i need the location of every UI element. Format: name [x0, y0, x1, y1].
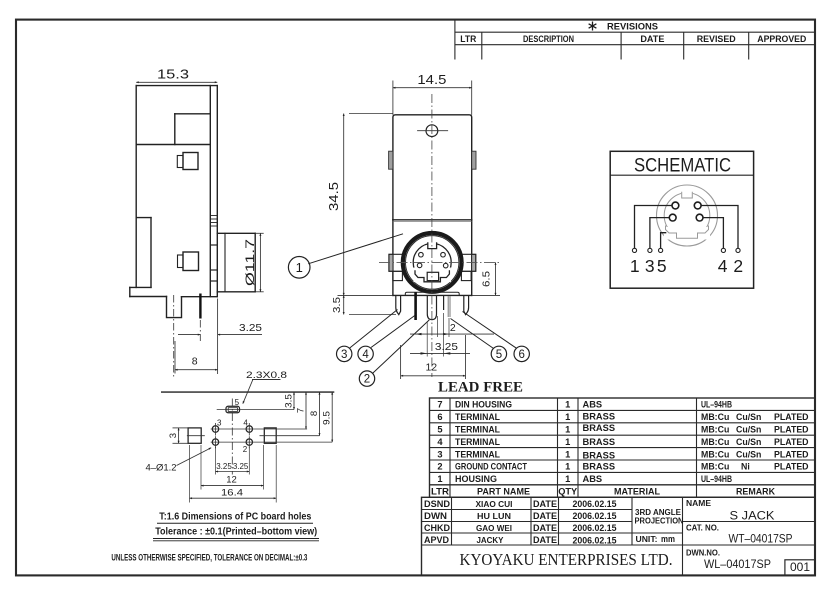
svg-text:6: 6: [437, 412, 442, 422]
svg-text:BRASS: BRASS: [583, 411, 616, 421]
svg-text:12: 12: [226, 475, 237, 486]
svg-text:Cu/Sn: Cu/Sn: [736, 412, 761, 422]
svg-text:PART NAME: PART NAME: [477, 487, 531, 498]
svg-text:MATERIAL: MATERIAL: [614, 487, 660, 498]
svg-text:NAME: NAME: [686, 499, 712, 508]
svg-text:1: 1: [630, 256, 640, 276]
svg-text:BRASS: BRASS: [583, 437, 616, 447]
svg-text:DATE: DATE: [533, 499, 557, 509]
svg-text:JACKY: JACKY: [477, 535, 504, 545]
svg-text:3.25: 3.25: [239, 322, 262, 334]
svg-text:1: 1: [565, 425, 570, 435]
svg-text:3: 3: [168, 433, 179, 438]
svg-text:14.5: 14.5: [417, 73, 446, 87]
svg-text:3: 3: [645, 256, 655, 276]
svg-text:GROUND CONTACT: GROUND CONTACT: [455, 462, 527, 472]
svg-text:XIAO CUI: XIAO CUI: [476, 499, 513, 509]
svg-text:5: 5: [437, 425, 442, 435]
svg-text:CHKD: CHKD: [424, 523, 450, 533]
svg-text:mm: mm: [661, 534, 675, 545]
svg-text:TERMINAL: TERMINAL: [455, 437, 500, 447]
svg-text:7: 7: [296, 408, 307, 413]
svg-text:2: 2: [437, 462, 442, 472]
svg-text:16.4: 16.4: [221, 488, 243, 499]
svg-text:MB:Cu: MB:Cu: [701, 462, 729, 472]
svg-text:6: 6: [518, 349, 524, 361]
svg-text:2.3X0.8: 2.3X0.8: [246, 370, 287, 381]
svg-text:APPROVED: APPROVED: [757, 33, 806, 44]
svg-text:REMARK: REMARK: [736, 487, 775, 498]
svg-text:TERMINAL: TERMINAL: [455, 425, 500, 435]
svg-text:TERMINAL: TERMINAL: [455, 412, 500, 422]
svg-text:3.25: 3.25: [216, 462, 232, 471]
svg-text:2: 2: [450, 322, 456, 334]
svg-text:MB:Cu: MB:Cu: [701, 437, 729, 447]
svg-text:ABS: ABS: [583, 474, 603, 484]
svg-text:8: 8: [192, 356, 198, 368]
svg-text:APVD: APVD: [424, 535, 449, 545]
svg-text:1: 1: [565, 462, 570, 472]
svg-text:UL–94HB: UL–94HB: [701, 474, 732, 484]
svg-text:BRASS: BRASS: [583, 462, 616, 472]
svg-text:MB:Cu: MB:Cu: [701, 412, 729, 422]
svg-text:PLATED: PLATED: [774, 462, 809, 472]
svg-text:2006.02.15: 2006.02.15: [573, 536, 617, 546]
svg-text:1: 1: [565, 474, 570, 484]
svg-text:34.5: 34.5: [327, 182, 341, 211]
svg-text:BRASS: BRASS: [583, 450, 616, 460]
svg-text:UNLESS OTHERWISE SPECIFIED, TO: UNLESS OTHERWISE SPECIFIED, TOLERANCE ON…: [111, 553, 307, 563]
svg-text:3: 3: [341, 349, 347, 361]
svg-text:4: 4: [243, 418, 248, 427]
svg-text:ABS: ABS: [583, 400, 603, 410]
svg-text:3.5: 3.5: [331, 297, 343, 313]
svg-text:DATE: DATE: [640, 33, 664, 44]
svg-text:9.5: 9.5: [322, 411, 333, 425]
svg-text:DWN: DWN: [424, 511, 447, 521]
svg-text:6.5: 6.5: [480, 271, 492, 287]
svg-text:PLATED: PLATED: [774, 425, 809, 435]
svg-text:HU LUN: HU LUN: [477, 511, 511, 521]
svg-text:3: 3: [217, 419, 222, 428]
svg-text:REVISED: REVISED: [697, 33, 736, 44]
svg-text:1: 1: [565, 400, 570, 410]
svg-text:WT–04017SP: WT–04017SP: [729, 531, 793, 545]
svg-text:LTR: LTR: [431, 487, 449, 498]
svg-text:UNIT:: UNIT:: [636, 535, 658, 544]
svg-text:SCHEMATIC: SCHEMATIC: [634, 155, 731, 176]
svg-text:2006.02.15: 2006.02.15: [573, 499, 617, 509]
svg-text:DATE: DATE: [533, 535, 557, 545]
svg-text:1: 1: [565, 412, 570, 422]
svg-text:PLATED: PLATED: [774, 437, 809, 447]
svg-text:Tolerance : ±0.1(Printed–botto: Tolerance : ±0.1(Printed–bottom view): [155, 527, 317, 538]
svg-text:DESCRIPTION: DESCRIPTION: [523, 33, 574, 44]
svg-text:MB:Cu: MB:Cu: [701, 449, 729, 459]
svg-text:GAO WEI: GAO WEI: [476, 523, 512, 533]
svg-text:1: 1: [296, 260, 303, 275]
svg-text:7: 7: [437, 400, 442, 410]
svg-text:DATE: DATE: [533, 523, 557, 533]
svg-text:Ø11.7: Ø11.7: [243, 239, 257, 286]
svg-text:5: 5: [496, 349, 502, 361]
svg-text:12: 12: [425, 362, 437, 374]
svg-text:PLATED: PLATED: [774, 412, 809, 422]
svg-text:T:1.6 Dimensions of PC boa: T:1.6 Dimensions of PC board holes: [159, 512, 311, 523]
svg-text:DWN.NO.: DWN.NO.: [686, 548, 720, 557]
svg-text:UL–94HB: UL–94HB: [701, 400, 732, 410]
svg-text:PLATED: PLATED: [774, 449, 809, 459]
svg-text:DATE: DATE: [533, 511, 557, 521]
svg-text:1: 1: [437, 474, 442, 484]
svg-text:3.5: 3.5: [284, 394, 295, 408]
svg-text:4: 4: [718, 256, 728, 276]
svg-text:MB:Cu: MB:Cu: [701, 425, 729, 435]
svg-text:KYOYAKU ENTERPRISES LTD.: KYOYAKU ENTERPRISES LTD.: [460, 550, 673, 569]
svg-text:WL–04017SP: WL–04017SP: [704, 557, 771, 571]
svg-text:5: 5: [657, 256, 667, 276]
svg-text:PROJECTION: PROJECTION: [635, 517, 684, 526]
svg-text:Cu/Sn: Cu/Sn: [736, 449, 761, 459]
svg-text:001: 001: [790, 560, 810, 574]
svg-text:4–Ø1.2: 4–Ø1.2: [146, 463, 177, 474]
svg-text:3.25: 3.25: [435, 341, 458, 353]
svg-text:LEAD FREE: LEAD FREE: [438, 379, 523, 395]
svg-text:Ni: Ni: [741, 462, 750, 472]
svg-text:8: 8: [309, 411, 320, 416]
svg-text:1: 1: [565, 449, 570, 459]
svg-text:4: 4: [362, 349, 369, 361]
svg-text:HOUSING: HOUSING: [455, 474, 497, 484]
svg-text:3: 3: [437, 449, 442, 459]
svg-text:2: 2: [243, 445, 248, 454]
svg-text:Cu/Sn: Cu/Sn: [736, 437, 761, 447]
svg-text:15.3: 15.3: [157, 67, 189, 82]
svg-text:1: 1: [565, 437, 570, 447]
svg-text:QTY: QTY: [558, 487, 578, 498]
svg-text:S JACK: S JACK: [730, 509, 776, 523]
svg-text:4: 4: [437, 437, 443, 447]
svg-text:CAT. NO.: CAT. NO.: [686, 523, 719, 532]
svg-text:DIN HOUSING: DIN HOUSING: [455, 400, 512, 410]
svg-text:LTR: LTR: [460, 33, 476, 44]
svg-text:5: 5: [235, 398, 240, 407]
svg-text:2: 2: [733, 256, 743, 276]
svg-text:TERMINAL: TERMINAL: [455, 449, 500, 459]
svg-text:Cu/Sn: Cu/Sn: [736, 425, 761, 435]
svg-text:2: 2: [364, 374, 370, 386]
svg-text:BRASS: BRASS: [583, 423, 616, 433]
svg-text:3.25: 3.25: [233, 462, 249, 471]
svg-text:REVISIONS: REVISIONS: [607, 21, 658, 32]
svg-text:DSND: DSND: [424, 499, 450, 509]
svg-text:2006.02.15: 2006.02.15: [573, 511, 617, 521]
svg-text:3RD ANGLE: 3RD ANGLE: [635, 508, 682, 517]
svg-text:2006.02.15: 2006.02.15: [573, 523, 617, 533]
